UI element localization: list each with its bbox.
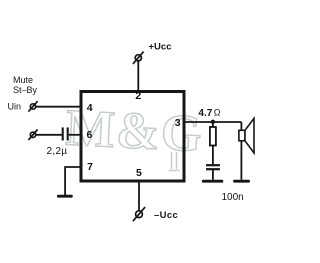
wire terminal to C1 (36, 134, 62, 136)
wire C2 to ground (212, 170, 214, 180)
svg-text:St–By: St–By (13, 85, 38, 95)
wire pin 7 to ground (65, 167, 81, 195)
svg-text:5: 5 (136, 167, 142, 179)
svg-text:+Ucc: +Ucc (149, 42, 172, 53)
svg-text:3: 3 (175, 117, 181, 129)
wire Uin to pin 4 (36, 106, 81, 108)
terminal +Ucc (circle+slash) (133, 52, 144, 64)
speaker LS1 driver box (239, 130, 245, 141)
wire speaker down to ground (240, 122, 242, 180)
terminal Mute/St-By (circle+slash) (28, 130, 37, 140)
terminal Uin (circle+slash) (28, 101, 37, 111)
svg-text:2: 2 (135, 90, 141, 102)
svg-text:Ω: Ω (214, 108, 221, 118)
terminal -Ucc (circle+slash) (133, 207, 145, 221)
wire pin 3 to speaker (184, 121, 241, 123)
svg-text:2,2µ: 2,2µ (47, 146, 68, 157)
wire resistor to C2 (212, 146, 214, 165)
wire C1 to pin 6 (69, 134, 81, 136)
wire pin 5 to -Ucc (138, 181, 140, 211)
svg-text:100n: 100n (222, 192, 244, 203)
resistor R1 4.7 ohm (210, 127, 216, 146)
speaker LS1 cone (245, 118, 254, 153)
svg-text:7: 7 (87, 161, 93, 173)
ground (C2) (203, 180, 222, 183)
watermark M&G (64, 100, 204, 171)
capacitor C2 100n plates (206, 165, 220, 169)
svg-text:Uin: Uin (8, 101, 22, 111)
svg-text:4: 4 (87, 102, 93, 114)
ground (pin 7) (58, 195, 71, 198)
wire +Ucc to pin 2 (137, 61, 139, 92)
op-amp/IC U1 box (81, 92, 184, 182)
svg-text:–Ucc: –Ucc (154, 210, 178, 221)
svg-text:6: 6 (86, 129, 92, 141)
wire junction to resistor (212, 122, 214, 127)
node junction on pin3 wire (211, 120, 215, 124)
svg-text:4.7: 4.7 (198, 108, 212, 119)
ground (speaker) (235, 180, 249, 183)
svg-text:Mute: Mute (13, 75, 33, 85)
capacitor C1 2,2u plates (63, 127, 68, 140)
